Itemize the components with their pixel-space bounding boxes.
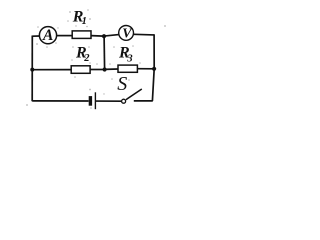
svg-text:2: 2 [83,53,90,64]
svg-text:1: 1 [82,16,87,27]
wire voltmeter to top-right corner [133,33,154,36]
bottom wire battery to switch [96,100,121,102]
switch S pivot circle [122,99,126,103]
ammeter A1 circle [39,27,56,44]
wire ammeter to resistor R1 [57,35,72,37]
left vertical wire [31,36,33,102]
node B junction dot middle [103,67,107,71]
vertical wire node A to node B [103,36,106,69]
right junction dot [152,67,156,71]
svg-text:3: 3 [126,53,132,64]
wire left junction to resistor R2 [32,69,71,71]
battery negative plate (short thick) [89,96,92,106]
wire node A to voltmeter [104,35,119,37]
wire node B to resistor R3 [105,68,118,70]
resistor R1 box [72,31,91,39]
wire R2 to node B [90,69,105,71]
bottom wire left segment [32,100,88,102]
node A junction dot top [102,34,106,38]
svg-text:V: V [122,26,133,41]
switch S lever [126,89,142,100]
resistor R2 box [71,66,90,74]
battery positive plate (long thin) [94,92,96,109]
left junction dot [30,68,34,72]
wire top-left corner to ammeter [32,35,39,37]
scan noise speckles [26,9,166,109]
resistor R3 box [118,65,137,72]
svg-text:S: S [117,73,127,95]
svg-text:A: A [42,27,53,44]
voltmeter V1 circle [119,26,134,41]
wire R3 to right junction [137,68,154,70]
wire R1 to node A [91,35,104,38]
right vertical wire [152,34,154,101]
bottom wire right segment [134,100,153,102]
